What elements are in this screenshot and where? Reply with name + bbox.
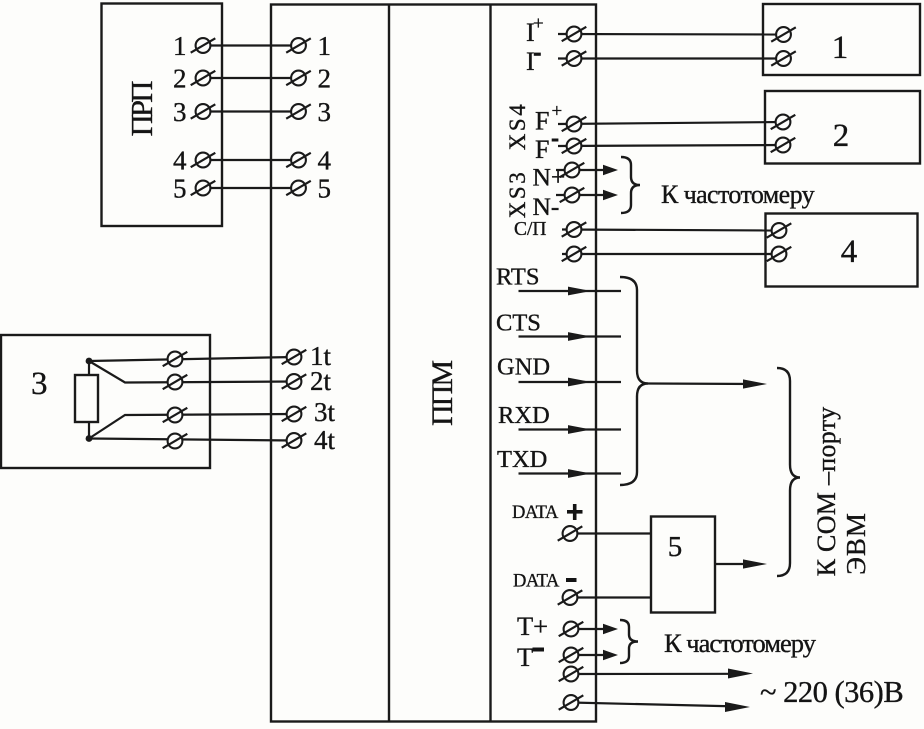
svg-text:4: 4	[841, 234, 858, 270]
svg-text:+: +	[533, 14, 544, 35]
svg-text:RXD: RXD	[498, 402, 550, 429]
svg-text:XS4: XS4	[505, 102, 530, 150]
svg-text:F: F	[535, 107, 549, 136]
svg-text:3: 3	[173, 97, 187, 127]
svg-text:4t: 4t	[314, 425, 336, 455]
svg-text:2t: 2t	[310, 366, 332, 396]
svg-text:ПРП: ПРП	[124, 81, 159, 137]
svg-text:4: 4	[173, 146, 187, 176]
svg-text:I: I	[526, 47, 535, 76]
svg-text:+: +	[552, 101, 563, 122]
svg-text:3t: 3t	[314, 397, 336, 427]
svg-text:2: 2	[318, 64, 332, 94]
svg-text:N+: N+	[533, 163, 566, 192]
svg-text:Т: Т	[517, 642, 533, 672]
svg-text:1: 1	[832, 30, 849, 66]
svg-text:DATA: DATA	[513, 572, 560, 592]
svg-text:К частотомеру: К частотомеру	[664, 628, 817, 658]
svg-text:4: 4	[318, 146, 332, 176]
svg-text:~ 220 (36)В: ~ 220 (36)В	[760, 675, 903, 709]
svg-text:CTS: CTS	[496, 310, 541, 337]
svg-text:ППМ: ППМ	[426, 361, 459, 426]
svg-text:3: 3	[31, 366, 48, 402]
svg-text:XS3: XS3	[505, 170, 530, 218]
svg-text:5: 5	[318, 174, 332, 204]
svg-text:GND: GND	[497, 354, 550, 381]
svg-text:К COM –порту: К COM –порту	[812, 407, 841, 577]
svg-text:RTS: RTS	[496, 264, 539, 291]
svg-text:С/П: С/П	[514, 219, 547, 240]
svg-text:F: F	[535, 135, 549, 164]
svg-text:5: 5	[173, 174, 187, 204]
svg-text:1: 1	[173, 31, 187, 61]
svg-text:DATA: DATA	[512, 503, 559, 523]
svg-text:3: 3	[318, 97, 332, 127]
svg-text:TXD: TXD	[497, 446, 547, 473]
svg-text:2: 2	[173, 64, 187, 94]
svg-text:5: 5	[668, 531, 683, 563]
svg-text:2: 2	[833, 118, 850, 154]
svg-text:1: 1	[318, 31, 332, 61]
svg-text:ЭВМ: ЭВМ	[841, 512, 871, 575]
svg-text:К частотомеру: К частотомеру	[661, 180, 815, 209]
svg-text:Т+: Т+	[517, 611, 548, 641]
svg-text:N-: N-	[533, 192, 560, 221]
